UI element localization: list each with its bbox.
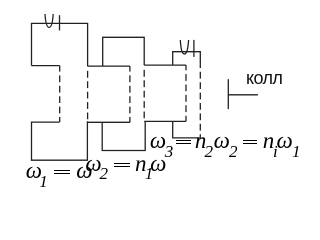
label omega2 = n1*omega <box>85 151 101 177</box>
brush fork U1 <box>45 14 53 27</box>
label omega3 = n2*omega2 = ni*omega1 <box>150 128 166 154</box>
arm stage2-to-stage3 with stage-3 partial bottom edge <box>144 64 186 66</box>
stage-3 stator top box <box>173 52 201 68</box>
stub at x=186 <box>185 65 187 70</box>
shaft dashed line at x=144.2 <box>143 70 145 122</box>
arm + stage-3 bottom box top edge <box>144 120 186 122</box>
stage-3 rotor bottom box <box>173 121 201 137</box>
arm + stage-2 bottom box top edge <box>87 121 130 123</box>
shaft dashed line at x=186 <box>185 74 187 121</box>
arm stage1-to-stage2 with stage-2 partial bottom edge <box>88 65 130 67</box>
brush fork U2 <box>180 40 188 54</box>
brush bar B2 <box>193 40 195 57</box>
stage-2 rotor bottom box <box>102 121 145 150</box>
collector lead wire <box>228 94 258 96</box>
shaft dashed line at x=59.7 <box>59 66 61 72</box>
shaft dashed line at x=87.6 <box>87 71 89 121</box>
stage-2 stator top box <box>103 37 145 66</box>
shaft dashed line at x=200.3 <box>199 72 201 138</box>
stage-1 top box partial bottom edge <box>32 65 60 67</box>
shaft dashed line at x=129.9 <box>129 75 131 122</box>
stage-1 stator top box <box>32 23 88 66</box>
label omega1 = omega <box>26 158 42 184</box>
label koll (collector) <box>246 68 282 89</box>
stage-1 rotor bottom box <box>32 121 88 160</box>
stub at x=129.9 <box>129 66 131 72</box>
collector brush bar <box>227 79 229 109</box>
brush bar B1 <box>59 15 61 30</box>
